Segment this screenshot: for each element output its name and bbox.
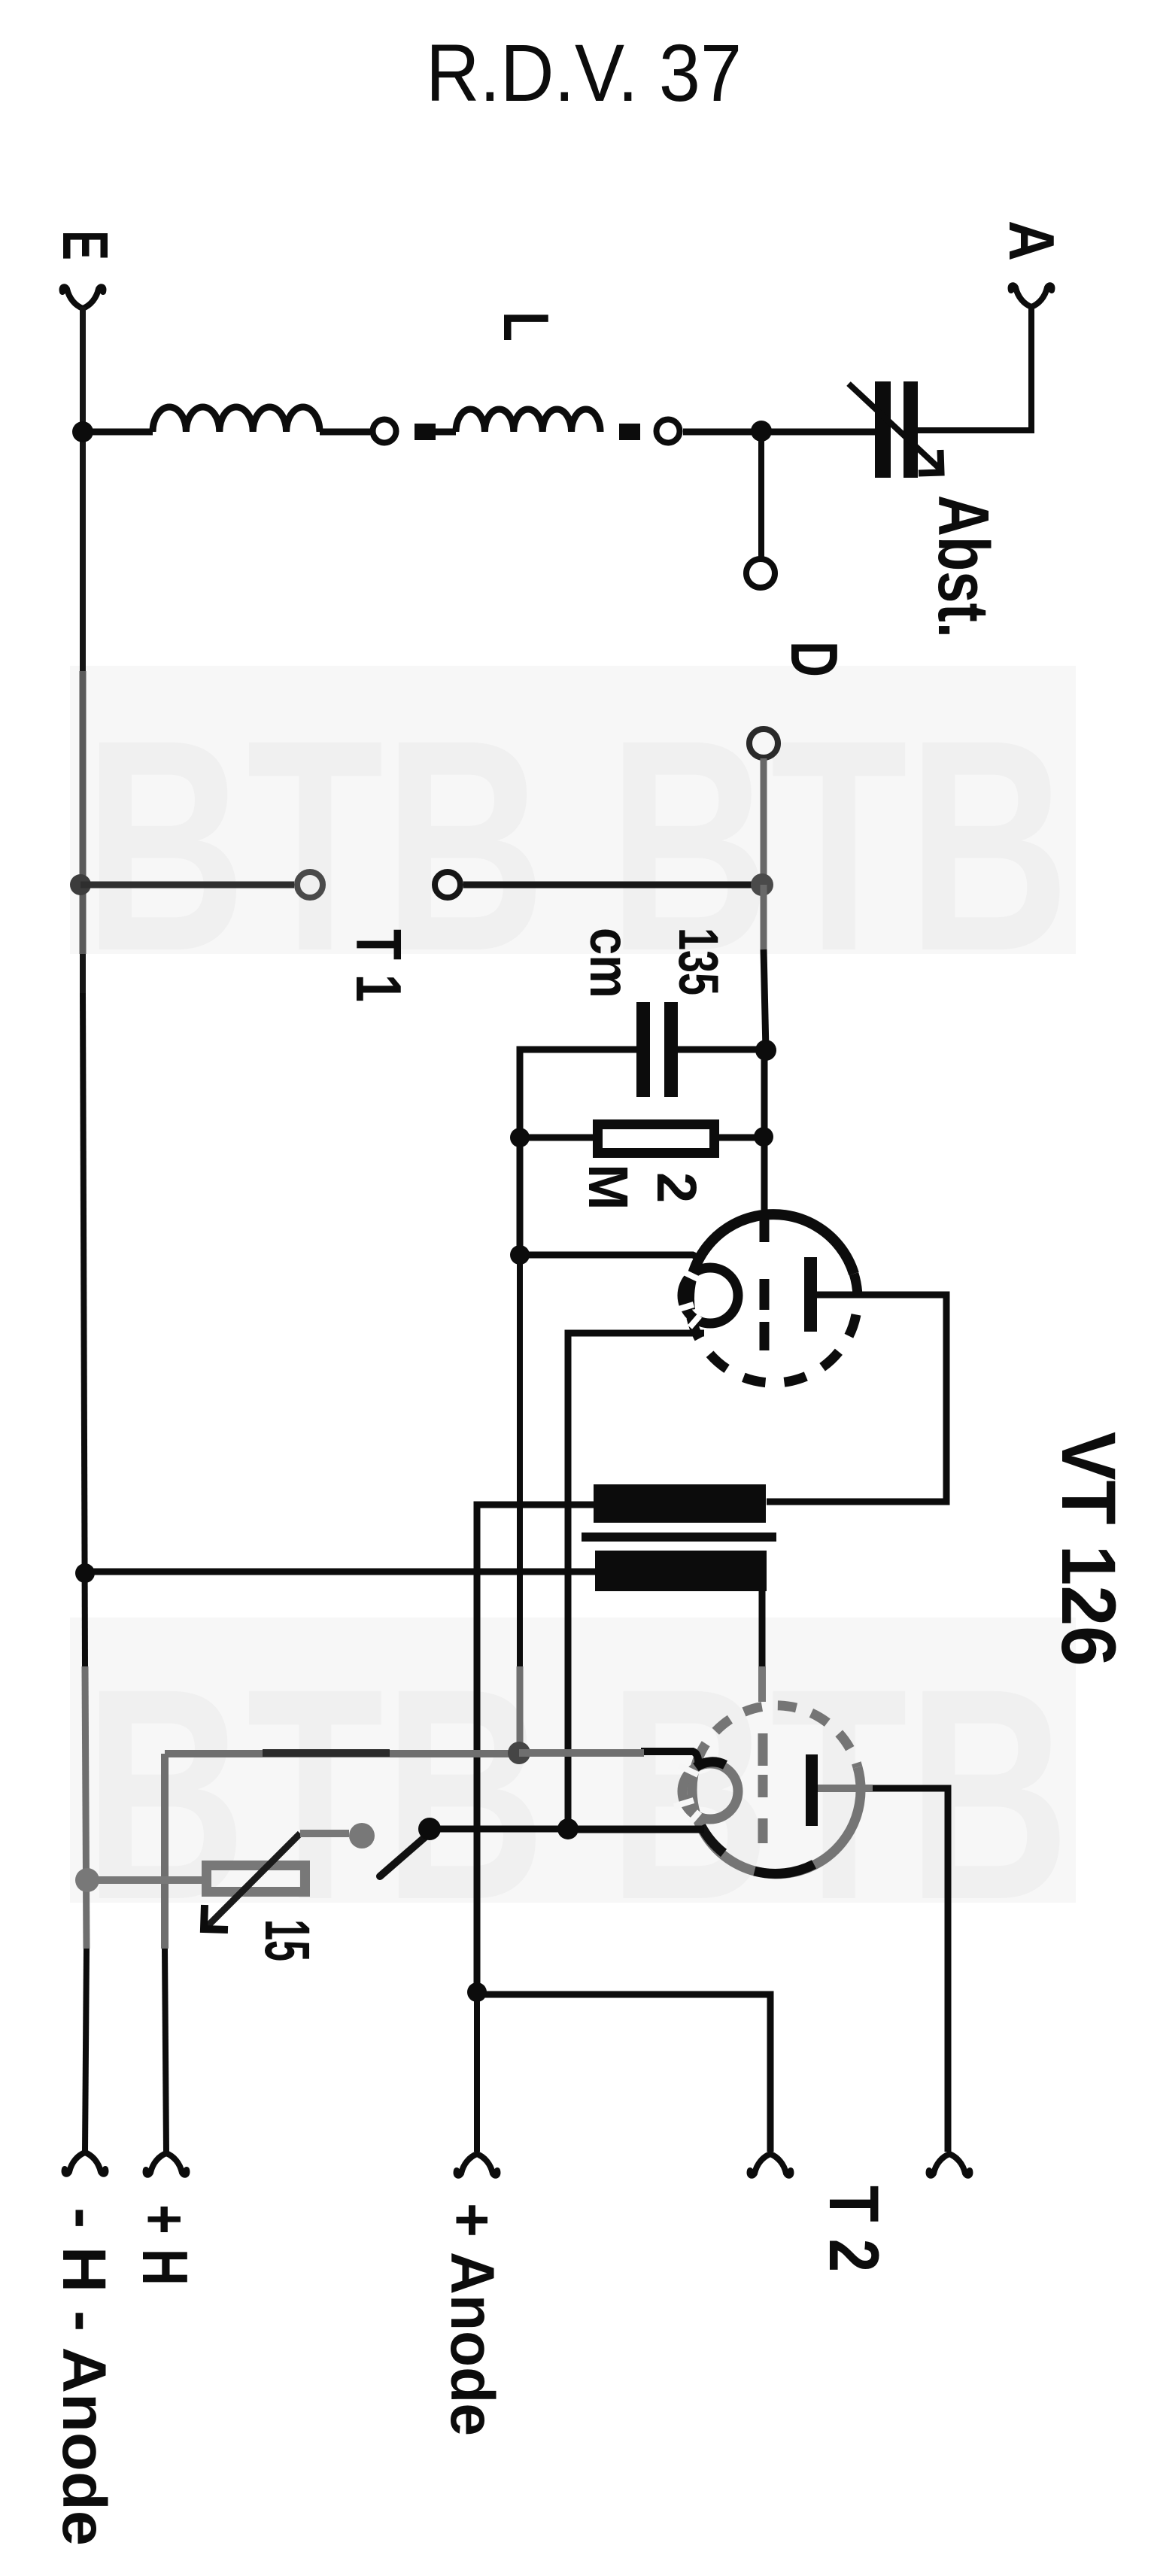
node: junction cap/grid [755, 1040, 776, 1061]
potentiometer arrowhead [204, 1905, 228, 1930]
svg-text:2: 2 [645, 1172, 708, 1203]
tube V1 grid (dashed) [760, 1213, 770, 1350]
wire: capacitor right lead [678, 1046, 766, 1053]
svg-text:E: E [49, 230, 120, 260]
wire: V2 filament top lead (black end) [641, 1751, 698, 1766]
plug contact (black) [619, 424, 640, 440]
terminal T2 jack 1 fork [750, 2154, 791, 2176]
wire: E line vertical (bottom, black) [85, 1949, 87, 2152]
wire to variable capacitor [683, 429, 875, 436]
wire: T1 row left [80, 882, 294, 889]
tube V2 filament black overlay [696, 1762, 725, 1767]
tube V2 grid (dashed gray) [758, 1733, 768, 1843]
svg-text:15: 15 [252, 1919, 323, 1961]
jack ring terminal (upper of D pair) [746, 559, 775, 588]
tube V2 filament loop (gray) [682, 1763, 738, 1819]
terminal T2 jack 2 fork [929, 2154, 970, 2176]
tube V1 envelope (dashed arc) [690, 1274, 858, 1383]
node: junction secondary return / E line [75, 1563, 95, 1583]
inductor L first winding [153, 407, 320, 432]
terminal -H -Anode fork [65, 2152, 106, 2174]
wire: x691 rail (gray tail) [517, 1666, 524, 1747]
svg-text:135: 135 [667, 928, 730, 995]
svg-text:+ H: + H [129, 2204, 200, 2286]
variable capacitor arrowhead [919, 450, 941, 473]
node: junction on E line (T1 row) [70, 874, 91, 895]
wire: +H rail dark segment [263, 1749, 390, 1757]
transformer T core [582, 1533, 776, 1542]
tube V2 envelope black segment 1 [755, 1864, 814, 1873]
wire: filament bottom lead [568, 1333, 704, 1830]
node: switch contact right (black) [418, 1818, 441, 1840]
tube V1 plate bar [804, 1257, 817, 1332]
wire: V2 plate lead (gray part) [818, 1785, 873, 1792]
wire: primary left lead to +Anode rail [477, 1505, 594, 1992]
terminal +H fork [146, 2153, 187, 2175]
wire: secondary grid lead (gray tail) [758, 1666, 766, 1702]
svg-text:T 2: T 2 [815, 2186, 894, 2272]
node: junction E x antenna wire [72, 421, 93, 442]
node: junction resistor left [510, 1128, 530, 1147]
svg-text:R.D.V. 37: R.D.V. 37 [426, 27, 742, 118]
terminal E (earth) fork [62, 287, 104, 308]
svg-text:- H - Anode: - H - Anode [50, 2207, 118, 2546]
wire: E line vertical (mid) [83, 993, 85, 1666]
terminal +Anode fork [457, 2154, 498, 2176]
wire: +H rail to V2 filament (gray) [519, 1749, 644, 1757]
wire: grid line down (gray upper part) [761, 885, 767, 949]
node: junction E line / potentiometer (gray) [75, 1868, 99, 1892]
node: junction antenna/D [751, 421, 772, 442]
wire: grid line down (black) [764, 949, 766, 1050]
wire: T1 row right [463, 882, 760, 889]
wire: D down to T1 row (gray) [761, 758, 767, 885]
svg-text:BTB BTB: BTB BTB [84, 677, 1070, 1013]
wire: secondary return to E line [85, 1569, 595, 1575]
svg-text:D: D [777, 641, 852, 677]
svg-text:L: L [490, 311, 561, 342]
variable capacitor Abst. plate 2 [903, 381, 918, 478]
wire: +H rail corner and run (gray) [165, 1750, 519, 1757]
wire: plate lead to transformer primary [767, 1295, 946, 1502]
tube V2 envelope (dashed top arc) [697, 1706, 858, 1767]
tube V1 VT126 envelope (solid arc) [689, 1214, 854, 1310]
wire: +H drop (black) [165, 1949, 166, 2152]
wire: resistor left lead [520, 1135, 593, 1141]
wire [436, 429, 456, 436]
svg-text:M: M [577, 1164, 639, 1211]
node: junction resistor right [754, 1127, 773, 1147]
wire: capacitor left lead [520, 1050, 636, 1255]
jack ring terminal T1 right [435, 872, 460, 898]
wire: grid lead into tube 1 [761, 1050, 768, 1213]
wire: resistor right lead [719, 1135, 764, 1141]
jack ring terminal D [749, 729, 778, 758]
svg-text:T 1: T 1 [342, 929, 414, 1002]
wire: +Anode branch to T2 jack 1 [477, 1994, 770, 2152]
jack ring terminal T1 left [297, 872, 323, 898]
variable capacitor arrow [849, 384, 939, 468]
capacitor 135 cm plate left [636, 1002, 650, 1097]
wire: x691 rail down to +H rail (black) [517, 1255, 523, 1666]
svg-text:Abst.: Abst. [923, 495, 1004, 638]
tube V1 filament loop [682, 1268, 738, 1323]
potentiometer 15 body (gray) [207, 1866, 305, 1892]
wire to A terminal [918, 308, 1031, 430]
node: junction T1/grid line [751, 873, 773, 896]
variable capacitor Abst. plate 1 [875, 381, 891, 478]
jack ring terminal (coil tap 2) [657, 420, 680, 443]
svg-text:VT 126: VT 126 [1046, 1432, 1131, 1666]
wire: wiper to switch contact (gray) [300, 1830, 349, 1837]
potentiometer arrow diagonal [208, 1833, 300, 1926]
svg-text:+ Anode: + Anode [438, 2203, 506, 2436]
jack ring terminal (coil tap 1) [373, 420, 396, 443]
tube V2 envelope black segment 2 [701, 1826, 724, 1853]
capacitor 135 cm plate right [664, 1002, 678, 1097]
wire: +Anode down [474, 1992, 480, 2152]
node: switch contact left (gray) [349, 1823, 375, 1848]
resistor 2 M body [598, 1125, 715, 1153]
transformer T secondary winding [595, 1551, 767, 1591]
wire: switch to filament bottom rail [430, 1826, 704, 1833]
node: junction +Anode branch [467, 1982, 487, 2002]
plug contact (black) [415, 424, 436, 440]
node: junction filament top lead [510, 1245, 530, 1265]
wire: E line gray segment in band1 [80, 671, 87, 954]
wire: V2 filament bottom lead [572, 1827, 704, 1833]
wire: filament top lead [520, 1255, 698, 1269]
wire: V2 plate lead to T2 [873, 1788, 948, 2152]
inductor L second winding [456, 409, 600, 432]
wire: secondary lead to grid of V2 [759, 1591, 766, 1666]
wire: +H drop (gray) [161, 1754, 169, 1949]
tube V2 plate bar [806, 1754, 818, 1826]
wire: antenna row left [83, 429, 153, 436]
switch lever [380, 1831, 432, 1876]
wire: E line vertical (gray segment) [85, 1666, 87, 1949]
svg-text:BTB BTB: BTB BTB [84, 1626, 1070, 1962]
node: junction x755 rail / filament rail [557, 1818, 579, 1839]
svg-text:A: A [995, 220, 1067, 261]
wire: E line vertical (top, black) [80, 307, 86, 993]
node: junction +H rail / x691 rail [508, 1742, 530, 1764]
svg-text:cm: cm [579, 928, 641, 998]
wire [320, 429, 370, 436]
transformer T primary winding [594, 1484, 766, 1523]
terminal A (antenna) fork [1011, 285, 1052, 307]
tube V2 envelope (solid arc) [692, 1760, 861, 1874]
wire: stub down to jack [758, 431, 764, 558]
wire: E to potentiometer (gray) [87, 1876, 202, 1884]
